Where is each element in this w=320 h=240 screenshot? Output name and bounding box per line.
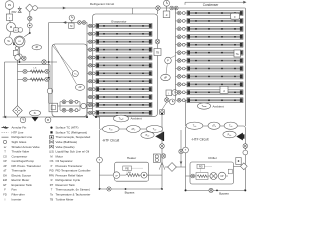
- cond tube 6 feed valves: [176, 51, 188, 55]
- svg-text:Inverter: Inverter: [12, 197, 22, 201]
- evap tube 7 feed valves: [87, 72, 96, 75]
- motor M circle: [6, 22, 15, 31]
- evaporator coil tube 3: [96, 39, 152, 44]
- svg-text:P: P: [51, 164, 53, 168]
- PID box chiller: [197, 164, 205, 168]
- leader line: [54, 45, 77, 85]
- svg-text:Pₚₚ: Pₚₚ: [146, 134, 150, 137]
- condenser coil tube 1: [187, 11, 243, 16]
- wire: condenser top arrow line: [185, 1, 244, 3]
- filter-drier FD diamond: [13, 106, 23, 116]
- bypass valve chiller: [209, 188, 213, 192]
- svg-text:TB: TB: [156, 52, 159, 55]
- cond tube 8 feed valves: [176, 67, 188, 71]
- heating element EH: [126, 174, 139, 177]
- cond tube 4 feed valves: [176, 35, 188, 39]
- valve branch1 right: [45, 69, 49, 73]
- valve branch2 right: [45, 77, 49, 81]
- svg-text:OS: OS: [50, 159, 54, 163]
- wire: [9, 9, 11, 14]
- cond tube 12 feed valves: [176, 98, 188, 102]
- wire: [19, 7, 21, 13]
- wire: [19, 47, 21, 62]
- aux circle 1: [17, 54, 22, 59]
- svg-text:Tₚₚ: Tₚₚ: [153, 128, 157, 131]
- legend left column: [2, 126, 41, 202]
- wire: [17, 115, 19, 117]
- junction: [19, 61, 21, 63]
- chiller box: [190, 162, 234, 184]
- receiver tank: [52, 44, 87, 117]
- CP pump heater: [113, 172, 120, 179]
- heater loop: [100, 129, 163, 189]
- pair box heater right: [153, 154, 160, 162]
- transfer drop line: [180, 130, 182, 167]
- crossover wire chiller: [234, 165, 241, 167]
- svg-text:Pₚₚ: Pₚₚ: [228, 133, 232, 136]
- sensor box: [166, 90, 172, 96]
- wire: branch 2: [18, 79, 51, 81]
- turbine meter TB box: [154, 49, 161, 56]
- diverter diamond chiller: [240, 163, 247, 170]
- pump heater: [155, 132, 163, 141]
- svg-text:Refrigeration Cycle: Refrigeration Cycle: [56, 178, 81, 182]
- sensor on heater left: [97, 157, 103, 163]
- svg-text:dP: dP: [3, 164, 6, 168]
- Tw box: [234, 50, 241, 57]
- condenser coil tube 12: [187, 98, 243, 103]
- evap tube 10 feed valves: [87, 95, 96, 98]
- svg-text:PRV: PRV: [12, 11, 17, 14]
- valve on oil return: [42, 60, 46, 64]
- svg-text:Diff. Press. Transducer: Diff. Press. Transducer: [12, 164, 41, 168]
- valve on transfer line: [179, 149, 183, 153]
- damper box: [220, 86, 228, 93]
- dP transducer ellipse: [32, 45, 42, 50]
- svg-text:FD: FD: [3, 192, 7, 196]
- heater box: [115, 162, 149, 181]
- svg-text:Tₚₚ: Tₚₚ: [229, 125, 233, 128]
- wire: [166, 6, 168, 11]
- svg-text:Pressure Relief Valve: Pressure Relief Valve: [56, 173, 84, 177]
- T_chw_out ellipse: [224, 122, 237, 129]
- legend right column: [49, 126, 91, 202]
- svg-text:Reservoir Tank: Reservoir Tank: [56, 183, 76, 187]
- svg-text:EM: EM: [3, 178, 7, 182]
- arrow: discharge line flow: [63, 7, 66, 10]
- evap tube 4 feed valves: [87, 48, 96, 51]
- valve on heater right: [160, 144, 165, 149]
- evaporator coil tube 7: [96, 71, 152, 76]
- svg-text:Filter-drier: Filter-drier: [12, 192, 25, 196]
- valve quad loop: [60, 100, 80, 112]
- heater element branch1: [30, 70, 43, 73]
- wire: liquid line: [49, 22, 87, 24]
- valve PRV vertical bowtie: [18, 8, 21, 12]
- svg-text:-HTF Circuit: -HTF Circuit: [102, 138, 119, 142]
- valve on discharge: [156, 6, 160, 10]
- evap tube 3 feed valves: [87, 40, 96, 43]
- sight glass: [15, 55, 21, 61]
- svg-text:CP: CP: [115, 175, 119, 177]
- wire in heater: [100, 174, 114, 176]
- P_suc ellipse: [29, 110, 40, 116]
- svg-text:CO: CO: [18, 41, 21, 43]
- svg-text:Thermopile: Thermopile: [12, 169, 27, 173]
- svg-text:Motor: Motor: [56, 154, 63, 158]
- junction: [95, 116, 97, 118]
- fan circle heater: [141, 172, 147, 178]
- relief diamond: [26, 4, 34, 12]
- svg-text:Condenser: Condenser: [203, 3, 220, 7]
- evap tube 9 feed valves: [87, 87, 96, 90]
- svg-text:Thermocouple, Suspended: Thermocouple, Suspended: [56, 135, 91, 139]
- wire in chiller: [186, 175, 191, 177]
- svg-text:Expansion Tank: Expansion Tank: [12, 183, 33, 187]
- svg-text:Fan: Fan: [12, 188, 17, 192]
- evaporator coil tube 5: [96, 55, 152, 60]
- svg-text:Refrigerant Line: Refrigerant Line: [12, 135, 33, 139]
- wire: superheat row: [58, 105, 88, 107]
- cond tube 2 feed valves: [176, 19, 188, 23]
- compressor CO outer: [14, 36, 25, 47]
- svg-text:CO: CO: [3, 154, 7, 158]
- svg-text:Tₐₘₙ: Tₐₘₙ: [119, 117, 124, 120]
- wire: line into duct: [132, 8, 134, 14]
- electric box E: [14, 28, 18, 32]
- svg-text:Electric Meter: Electric Meter: [12, 178, 30, 182]
- instrument Ta: [5, 37, 13, 45]
- cooling element chiller: [196, 173, 208, 180]
- evaporator coil tube 4: [96, 47, 152, 52]
- arrow into compressor: [13, 42, 17, 45]
- wire: [10, 20, 11, 22]
- wire: evap-to-loop right: [161, 114, 163, 129]
- evap tube 6 feed valves: [87, 64, 96, 67]
- svg-text:Evaporator: Evaporator: [111, 20, 126, 24]
- svg-text:Surface TC (Refrigerant): Surface TC (Refrigerant): [56, 130, 88, 134]
- junction: [185, 189, 187, 191]
- condenser coil tube 2: [187, 18, 243, 23]
- valve pair on liquid line: [78, 21, 82, 25]
- cond tube 3 feed valves: [176, 27, 188, 31]
- svg-text:Oil Separator: Oil Separator: [56, 159, 73, 163]
- T_chw_in ellipse: [186, 122, 203, 129]
- svg-text:Shrader Access Valve: Shrader Access Valve: [12, 145, 40, 149]
- wire: [10, 32, 12, 37]
- svg-text:PID Temperature Controller: PID Temperature Controller: [56, 169, 91, 173]
- wire: branch 1: [18, 71, 51, 73]
- P_htf ellipse chiller: [223, 131, 236, 138]
- wire: branch top: [18, 64, 51, 66]
- wire: oil return header: [5, 61, 58, 63]
- valve heater right 2: [161, 154, 165, 158]
- svg-text:Tₚₚ: Tₚₚ: [109, 128, 113, 131]
- wire: cond inlet manifold: [175, 8, 177, 100]
- svg-text:dP: dP: [79, 86, 82, 89]
- instrument PS (pressure switch): [5, 1, 14, 10]
- wire: branch right riser: [49, 65, 51, 89]
- leader line: [171, 56, 176, 59]
- evaporator coil tube 12: [96, 110, 152, 115]
- svg-text:Compressor: Compressor: [12, 154, 28, 158]
- d box: [163, 11, 170, 18]
- ambient sensor cond: [197, 103, 210, 109]
- tank sensor Ta: [72, 71, 78, 77]
- timer clock top: [164, 0, 170, 6]
- evap tube 12 feed valves: [87, 111, 96, 114]
- evaporator coil tube 11: [96, 102, 152, 107]
- svg-text:Heater: Heater: [127, 156, 136, 160]
- svg-text:Pₓ: Pₓ: [34, 112, 37, 115]
- oil separator OS circle: [18, 28, 23, 33]
- heater element branch2: [30, 78, 43, 81]
- svg-text:Ambient: Ambient: [213, 104, 224, 108]
- wire: right-edge refrigerant drop: [244, 8, 246, 126]
- junction: [86, 116, 88, 118]
- wire: evap liquid manifold: [86, 23, 88, 118]
- sight glass on riser: [27, 23, 32, 28]
- fan box on condenser: [231, 13, 240, 19]
- evaporator coil tube 6: [96, 63, 152, 68]
- svg-text:Thermocouple, (In Stream): Thermocouple, (In Stream): [56, 188, 91, 192]
- condenser coil tube 10: [187, 82, 243, 87]
- EM box chiller: [228, 169, 232, 174]
- evap tube 2 feed valves: [87, 32, 96, 35]
- wire: compressor suction riser: [29, 12, 31, 33]
- cond tube 10 feed valves: [176, 82, 188, 86]
- svg-text:Bypass: Bypass: [125, 191, 135, 195]
- cond tube 11 feed valves: [176, 90, 188, 94]
- svg-text:M: M: [50, 154, 52, 158]
- wire elbow to compressor: [24, 33, 30, 37]
- svg-text:dP: dP: [35, 46, 38, 49]
- T_htf_in ellipse: [103, 126, 120, 133]
- sensor under suction: [45, 117, 51, 123]
- svg-text:Valve (Ball/Gate): Valve (Ball/Gate): [56, 140, 78, 144]
- wire: suction line: [3, 116, 88, 118]
- condenser coil tube 4: [187, 34, 243, 39]
- sensor circle: [81, 103, 86, 108]
- dP sensor ellipse: [161, 74, 171, 80]
- condenser coil tube 11: [187, 90, 243, 95]
- wire: left drop: [4, 62, 6, 117]
- condenser coil tube 7: [187, 58, 243, 63]
- wire: evap-to-loop left: [95, 115, 97, 118]
- ambient sensor heater: [113, 115, 128, 122]
- svg-text:PRV: PRV: [49, 173, 55, 177]
- pump chiller: [237, 133, 245, 140]
- svg-text:ET: ET: [3, 183, 7, 187]
- Y split: [159, 162, 162, 169]
- svg-text:R: R: [51, 178, 53, 182]
- sensor chiller left: [183, 147, 189, 153]
- arrow: liquid line flow: [63, 21, 66, 24]
- evap tube 11 feed valves: [87, 103, 96, 106]
- arrow on transfer line: [180, 162, 183, 165]
- valve on duct right: [155, 39, 160, 44]
- inverter I box: [6, 14, 12, 20]
- wire: liquid line drop: [48, 23, 50, 104]
- timer clock: [69, 15, 74, 20]
- PID box heater: [123, 166, 132, 171]
- leader line: [53, 46, 73, 72]
- sight glass chiller right: [243, 150, 248, 155]
- svg-text:Electric Source: Electric Source: [12, 173, 32, 177]
- compressor CO inner: [16, 37, 24, 45]
- svg-text:PID: PID: [49, 169, 53, 173]
- leader dashes: [205, 165, 213, 167]
- CP pump chiller: [218, 172, 226, 180]
- small circle below compressor: [15, 47, 18, 50]
- svg-text:Pressure Transducer: Pressure Transducer: [56, 164, 83, 168]
- crossover wire: [165, 166, 186, 168]
- aux valve 2: [22, 56, 26, 60]
- evaporator coil tube 10: [96, 95, 152, 100]
- svg-text:Bypass: Bypass: [219, 191, 229, 195]
- svg-text:RT: RT: [50, 183, 54, 187]
- dT_htf ellipse: [127, 126, 141, 133]
- svg-text:Ambient: Ambient: [131, 117, 142, 121]
- evap tube 8 feed valves: [87, 80, 96, 83]
- M box on liquid line: [69, 23, 75, 28]
- svg-text:dTₚ: dTₚ: [212, 125, 216, 128]
- evap tube 5 feed valves: [87, 56, 96, 59]
- valve on riser: [28, 16, 32, 20]
- condenser coil tube 8: [187, 66, 243, 71]
- svg-text:dP: dP: [164, 76, 167, 79]
- wire: cond-to-loop left: [185, 100, 187, 126]
- svg-text:Tw: Tw: [236, 54, 239, 56]
- svg-text:-HTF Circuit: -HTF Circuit: [191, 137, 208, 141]
- svg-text:TB: TB: [50, 197, 54, 201]
- pressure sensor P: [165, 57, 172, 64]
- chiller loop: [186, 126, 246, 190]
- bypass valve heater: [107, 187, 111, 191]
- svg-text:Annular Fin: Annular Fin: [12, 126, 27, 130]
- wire: [49, 94, 51, 104]
- dT_chw ellipse: [208, 122, 220, 129]
- svg-text:Tₚₚ: Tₚₚ: [193, 125, 197, 128]
- timer clock under suction: [20, 117, 26, 123]
- sight glass lower: [47, 88, 53, 94]
- valve in chiller: [191, 174, 195, 178]
- valve chiller right: [243, 144, 248, 149]
- timer clock: [170, 99, 176, 105]
- evaporator duct: [93, 14, 158, 116]
- evaporator coil tube 1: [96, 23, 152, 28]
- svg-text:PS: PS: [8, 4, 12, 7]
- condenser coil tube 6: [187, 50, 243, 55]
- svg-text:HTF Line: HTF Line: [12, 130, 24, 134]
- arrow: suction left: [3, 116, 6, 119]
- arrow: [243, 1, 246, 4]
- svg-text:dT: dT: [3, 169, 6, 173]
- box on chiller right: [236, 158, 241, 165]
- cond tube 9 feed valves: [176, 75, 188, 79]
- svg-text:P: P: [167, 59, 169, 63]
- valve branch2 left: [23, 77, 27, 81]
- condenser coil tube 5: [187, 42, 243, 47]
- svg-text:Throttle Valve: Throttle Valve: [12, 150, 30, 154]
- cond tube 1 feed valves: [176, 11, 188, 15]
- wire: top discharge line: [33, 7, 245, 9]
- svg-text:Liquid/Vap Sub Line w/ Oil: Liquid/Vap Sub Line w/ Oil: [56, 150, 90, 154]
- box at duct outlet: [160, 110, 165, 115]
- svg-text:PID: PID: [199, 167, 203, 169]
- tank sensor dP: [75, 84, 84, 90]
- leader dashes: [132, 167, 144, 169]
- svg-text:Turbine Meter: Turbine Meter: [56, 197, 74, 201]
- diverter diamond heater: [168, 163, 177, 172]
- condenser coil tube 9: [187, 74, 243, 79]
- leader line: [166, 64, 167, 74]
- wire: [71, 21, 73, 24]
- P_htf ellipse heater: [141, 132, 154, 139]
- svg-text:M: M: [70, 25, 72, 28]
- svg-text:PID: PID: [125, 169, 129, 171]
- svg-text:Refrigerant Circuit: Refrigerant Circuit: [90, 2, 114, 6]
- svg-text:Valve (Needle): Valve (Needle): [56, 145, 75, 149]
- svg-text:(LS): (LS): [49, 150, 54, 154]
- evaporator coil tube 2: [96, 31, 152, 36]
- T_htf_out ellipse: [146, 126, 163, 133]
- svg-text:Sight Glass: Sight Glass: [12, 140, 27, 144]
- reservoir tank RT double box: [49, 103, 58, 112]
- svg-text:Chiller: Chiller: [208, 156, 217, 160]
- svg-text:dTₚ: dTₚ: [131, 128, 135, 131]
- sensor T circle: [172, 90, 178, 96]
- svg-text:CP: CP: [220, 176, 224, 178]
- condenser coil tube 3: [187, 26, 243, 31]
- sight glass pair on discharge: [170, 6, 174, 10]
- evap tube 1 feed valves: [87, 24, 96, 27]
- svg-text:EH: EH: [3, 173, 7, 177]
- valve branch1 left: [23, 69, 27, 73]
- evaporator coil tube 8: [96, 79, 152, 84]
- D box: [87, 103, 93, 109]
- svg-text:CP: CP: [3, 159, 7, 163]
- valve: [165, 98, 169, 102]
- svg-text:Tₐₘₙ: Tₐₘₙ: [202, 105, 207, 108]
- cond tube 5 feed valves: [176, 43, 188, 47]
- fan circle chiller: [210, 173, 217, 180]
- svg-text:EH: EH: [128, 172, 131, 174]
- aux box: [13, 50, 18, 55]
- wire: branch riser: [17, 60, 19, 105]
- cond tube 7 feed valves: [176, 59, 188, 63]
- strainer funnel: [32, 117, 39, 122]
- svg-text:Centrifugal Pump: Centrifugal Pump: [12, 159, 35, 163]
- small circle after diamond: [33, 6, 38, 11]
- svg-text:Temperature & Tachometer: Temperature & Tachometer: [56, 192, 91, 196]
- evaporator coil tube 9: [96, 87, 152, 92]
- svg-text:Surface TC (HTF): Surface TC (HTF): [56, 126, 79, 130]
